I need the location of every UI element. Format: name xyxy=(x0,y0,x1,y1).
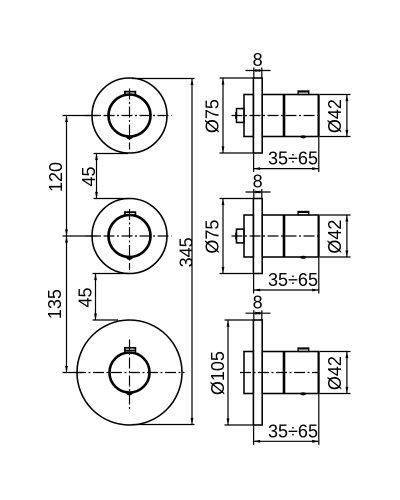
dimension 45 upper extension line top xyxy=(94,153,129,155)
svg-text:Ø75: Ø75 xyxy=(203,220,223,254)
svg-text:135: 135 xyxy=(45,289,65,319)
side view 2 handle bottom index mark xyxy=(300,256,306,259)
dimension 135 extension line bottom xyxy=(63,372,83,374)
front view knob 1 vertical centerline xyxy=(129,89,131,150)
dimension 345 extension line top xyxy=(132,78,195,80)
side view 2 dimension Ø75 extension lines xyxy=(220,198,254,200)
dimension 120 extension line bottom xyxy=(63,235,100,237)
side view 2 dimension Ø75 line xyxy=(222,198,225,275)
side view 3 dimension Ø105 extension lines xyxy=(225,319,254,321)
side view 3 handle top tab xyxy=(298,348,309,352)
side view 3 dimension Ø105 line xyxy=(227,319,230,426)
front view knob 1 bottom index mark xyxy=(126,136,133,139)
side view 2 handle top tab xyxy=(298,212,309,216)
dimension 45 lower line xyxy=(94,273,97,321)
side view 3 dimension Ø42 extension lines xyxy=(320,351,351,353)
side view 2 handle divider line xyxy=(283,215,286,257)
side view 3 dimension 35÷65 extension lines xyxy=(253,425,255,445)
dimension 135 line xyxy=(65,235,68,373)
front view knob 2 vertical centerline xyxy=(129,209,131,270)
dimension 120 extension line top xyxy=(63,115,100,117)
svg-text:Ø105: Ø105 xyxy=(208,351,228,395)
side view 3 handle divider line xyxy=(283,352,286,394)
side view 3 dimension 8 extension lines xyxy=(253,310,255,320)
side view 1 dimension 8 line xyxy=(246,69,271,72)
side view 2 stem xyxy=(237,229,245,243)
side view 2 dimension 35÷65 line xyxy=(253,289,320,292)
front view knob 2 inner circle xyxy=(109,215,151,257)
side view 2 stem end tick xyxy=(235,233,237,240)
side view 1 handle cylinder xyxy=(262,95,318,137)
svg-text:8: 8 xyxy=(253,171,263,191)
side view 3 handle bottom index mark xyxy=(300,392,306,395)
svg-text:35÷65: 35÷65 xyxy=(268,270,318,290)
side view 2 wall plate xyxy=(253,199,262,274)
side view 1 centerline xyxy=(232,115,320,117)
svg-text:345: 345 xyxy=(176,237,196,267)
dimension 345 extension line bottom xyxy=(132,424,195,426)
side view 1 dimension 35÷65 extension lines xyxy=(253,153,255,172)
side view 3 handle cylinder xyxy=(262,352,318,394)
svg-text:35÷65: 35÷65 xyxy=(268,421,318,441)
front view knob 1 horizontal centerline xyxy=(86,115,172,117)
side view 1 dimension Ø42 extension lines xyxy=(320,94,351,96)
side view 1 handle top tab xyxy=(298,91,309,95)
front view knob 1 top tab xyxy=(125,92,135,96)
front view knob 2 top tab xyxy=(125,212,135,216)
svg-text:8: 8 xyxy=(253,50,263,70)
svg-text:Ø42: Ø42 xyxy=(325,356,345,390)
front view knob 1 outer circle xyxy=(92,78,167,153)
side view 1 handle front face xyxy=(318,95,320,137)
side view 2 dimension 35÷65 extension lines xyxy=(253,274,255,294)
front view knob 3 bottom index mark xyxy=(126,392,133,395)
side view 3 valve body xyxy=(244,352,253,394)
side view 2 dimension Ø42 line xyxy=(346,214,349,258)
svg-text:120: 120 xyxy=(46,162,66,192)
side view 2 dimension Ø42 extension lines xyxy=(320,214,351,216)
side view 2 centerline xyxy=(232,235,320,237)
svg-text:Ø42: Ø42 xyxy=(325,220,345,254)
side view 1 handle divider line xyxy=(283,95,286,137)
dimension 345 line xyxy=(191,78,194,426)
side view 2 handle cylinder xyxy=(262,215,318,257)
front view knob 3 vertical centerline xyxy=(129,340,131,411)
side view 2 handle front face xyxy=(318,215,320,257)
side view 2 valve body xyxy=(244,215,253,257)
side view 2 dimension 8 line xyxy=(246,191,271,194)
svg-text:45: 45 xyxy=(79,166,99,186)
dimension 45 upper extension line bottom xyxy=(94,198,129,200)
side view 1 handle bottom index mark xyxy=(300,135,306,138)
side view 1 dimension Ø75 line xyxy=(222,77,225,154)
dimension 45 lower extension line top xyxy=(93,273,129,275)
side view 3 handle front face xyxy=(318,352,320,394)
side view 3 dimension 8 line xyxy=(246,312,271,315)
front view knob 2 bottom index mark xyxy=(126,257,133,260)
svg-text:8: 8 xyxy=(253,293,263,313)
svg-text:Ø75: Ø75 xyxy=(203,99,223,133)
svg-text:Ø42: Ø42 xyxy=(325,99,345,133)
side view 3 centerline xyxy=(240,372,319,374)
front view knob 3 top tab xyxy=(125,348,135,354)
dimension 45 upper line xyxy=(95,153,98,200)
side view 1 dimension 35÷65 line xyxy=(253,167,320,170)
front view knob 2 horizontal centerline xyxy=(86,235,172,237)
side view 3 wall plate xyxy=(253,320,262,425)
side view 1 dimension Ø75 extension lines xyxy=(220,77,254,79)
front view knob 3 inner circle xyxy=(110,353,150,393)
side view 3 dimension Ø42 line xyxy=(346,351,349,395)
side view 1 stem end tick xyxy=(235,112,237,119)
front view knob 3 outer circle xyxy=(77,320,182,425)
front view knob 1 inner circle xyxy=(109,95,151,137)
side view 2 dimension 8 extension lines xyxy=(253,189,255,199)
side view 1 wall plate xyxy=(253,78,262,153)
svg-text:35÷65: 35÷65 xyxy=(268,149,318,169)
dimension 45 lower extension line bottom xyxy=(93,319,119,321)
side view 1 dimension 8 extension lines xyxy=(253,68,255,79)
front view knob 3 horizontal centerline xyxy=(75,372,185,374)
side view 1 dimension Ø42 line xyxy=(346,94,349,138)
side view 1 valve body xyxy=(244,95,253,137)
side view 3 dimension 35÷65 line xyxy=(253,440,320,443)
front view knob 2 outer circle xyxy=(92,199,167,274)
dimension 120 line xyxy=(65,115,68,237)
svg-text:45: 45 xyxy=(75,287,95,307)
side view 1 stem xyxy=(237,109,245,123)
